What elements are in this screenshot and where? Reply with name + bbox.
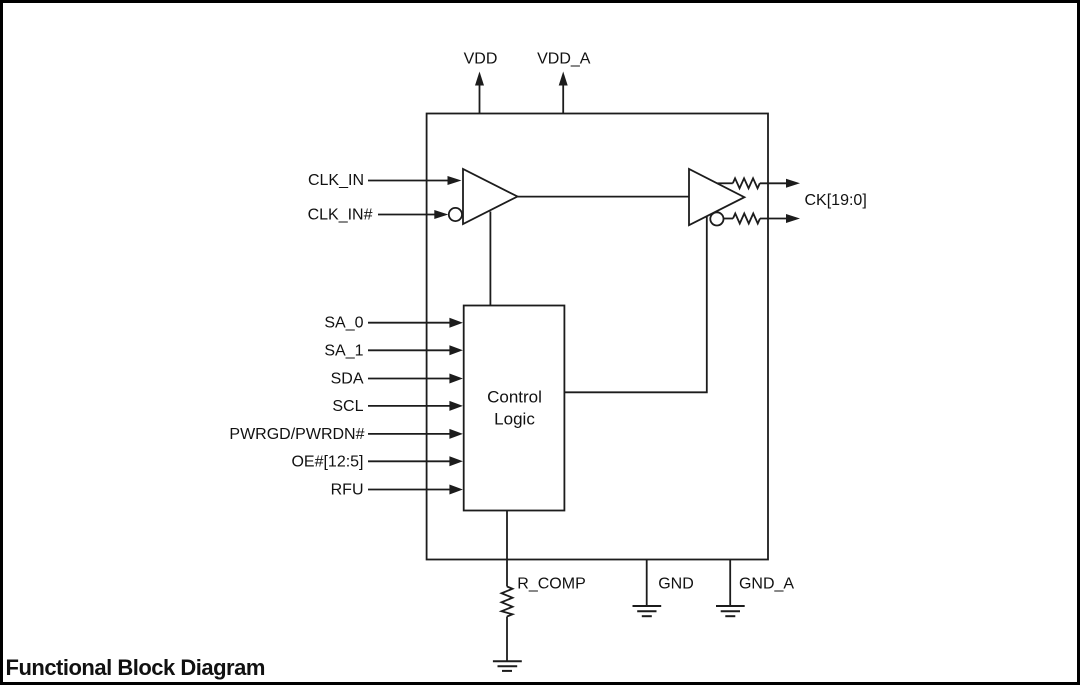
ground GND (633, 606, 662, 616)
svg-text:CLK_IN#: CLK_IN# (308, 206, 373, 223)
inversion bubble U2 (710, 212, 723, 225)
svg-text:PWRGD/PWRDN#: PWRGD/PWRDN# (229, 426, 364, 443)
wire OE#[12:5] (368, 456, 463, 466)
wire R_COMP (506, 511, 508, 587)
wire RFU (368, 485, 463, 495)
ground (R_COMP) (493, 661, 522, 671)
wire SDA (368, 374, 463, 384)
svg-text:Logic: Logic (494, 409, 535, 428)
wire U1 to control logic (489, 212, 491, 306)
wire control logic to U2 (564, 216, 706, 392)
resistor R_COMP (502, 587, 513, 617)
wire PWRGD/PWRDN# (368, 429, 463, 439)
wire VDD (475, 72, 484, 114)
svg-text:Control: Control (487, 388, 542, 407)
wire U1 output to U2 (518, 196, 690, 198)
control logic block (464, 306, 565, 511)
svg-text:OE#[12:5]: OE#[12:5] (291, 453, 363, 470)
svg-text:SA_0: SA_0 (324, 315, 363, 332)
wire CK true output (760, 179, 800, 188)
wire SA_0 (368, 318, 463, 328)
svg-text:CK[19:0]: CK[19:0] (805, 192, 867, 209)
resistor Rs1 (true output) (717, 178, 760, 188)
svg-text:SCL: SCL (332, 398, 363, 415)
svg-text:SA_1: SA_1 (324, 342, 363, 359)
ground GND_A (716, 606, 745, 616)
svg-text:GND_A: GND_A (739, 575, 794, 592)
wire VDD_A (559, 72, 568, 114)
wire SCL (368, 401, 463, 411)
IC block outline (427, 114, 768, 560)
svg-text:RFU: RFU (331, 482, 364, 499)
wire CK complement output (760, 214, 800, 223)
wire R_COMP to ground (506, 617, 508, 662)
wire GND_A (729, 560, 731, 606)
svg-text:GND: GND (658, 575, 694, 592)
svg-text:VDD: VDD (464, 50, 498, 67)
inversion bubble U1 (449, 208, 462, 221)
svg-text:SDA: SDA (331, 371, 364, 388)
op-amp U1 input buffer (463, 169, 518, 224)
op-amp U2 output buffer (689, 169, 744, 225)
svg-text:Functional Block Diagram: Functional Block Diagram (6, 655, 265, 680)
wire SA_1 (368, 345, 463, 355)
resistor Rs2 (complement output) (724, 214, 761, 224)
svg-text:CLK_IN: CLK_IN (308, 172, 364, 189)
svg-text:R_COMP: R_COMP (517, 575, 585, 592)
svg-text:VDD_A: VDD_A (537, 50, 591, 67)
wire CLK_IN# (378, 210, 448, 219)
wire GND (646, 560, 648, 606)
wire CLK_IN (368, 176, 462, 185)
